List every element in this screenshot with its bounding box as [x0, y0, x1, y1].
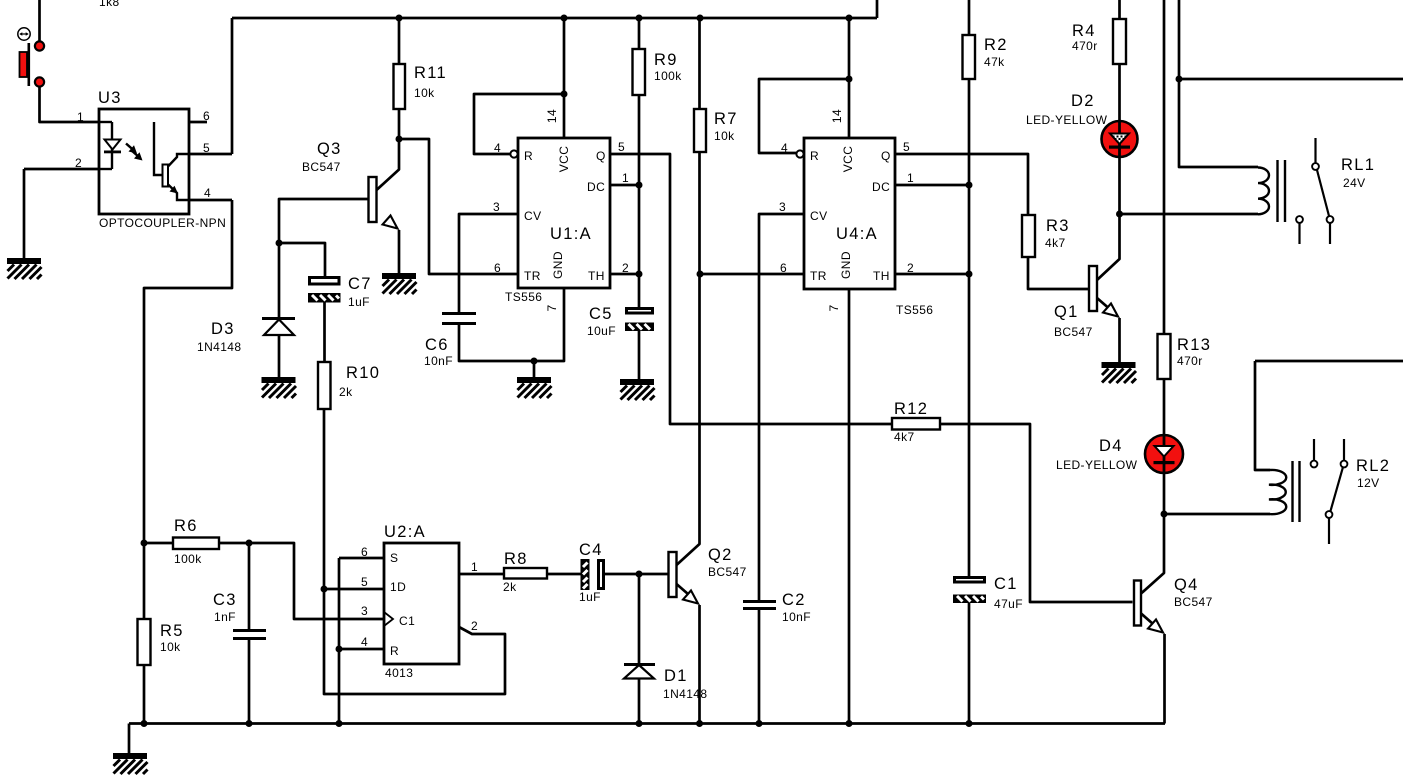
svg-text:470r: 470r	[1072, 39, 1098, 53]
svg-text:VCC: VCC	[557, 146, 571, 173]
svg-text:U3: U3	[98, 89, 122, 107]
svg-text:4: 4	[204, 186, 211, 200]
svg-text:C2: C2	[782, 591, 806, 609]
svg-text:10nF: 10nF	[424, 354, 453, 368]
svg-text:R4: R4	[1072, 22, 1096, 40]
svg-text:OPTOCOUPLER-NPN: OPTOCOUPLER-NPN	[99, 216, 226, 230]
svg-text:7: 7	[827, 304, 841, 311]
svg-text:10k: 10k	[160, 640, 181, 654]
svg-text:3: 3	[779, 200, 786, 214]
svg-text:5: 5	[903, 140, 910, 154]
svg-text:CV: CV	[810, 209, 827, 223]
svg-text:LED-YELLOW: LED-YELLOW	[1026, 113, 1108, 127]
svg-text:U4:A: U4:A	[836, 225, 878, 243]
svg-text:C7: C7	[348, 275, 372, 293]
svg-text:12V: 12V	[1357, 476, 1380, 490]
svg-text:R: R	[390, 644, 399, 658]
svg-text:D2: D2	[1071, 92, 1095, 110]
svg-text:10uF: 10uF	[587, 324, 616, 338]
svg-text:Q3: Q3	[317, 140, 342, 158]
svg-text:6: 6	[361, 545, 368, 559]
svg-text:3: 3	[361, 604, 368, 618]
svg-text:4: 4	[781, 141, 788, 155]
svg-text:R2: R2	[984, 36, 1008, 54]
svg-text:VCC: VCC	[841, 146, 855, 173]
svg-text:BC547: BC547	[1054, 325, 1093, 339]
svg-text:BC547: BC547	[1174, 595, 1213, 609]
svg-text:R6: R6	[174, 517, 198, 535]
svg-text:5: 5	[203, 141, 210, 155]
svg-text:R: R	[810, 149, 819, 163]
svg-text:14: 14	[545, 109, 559, 123]
svg-text:RL2: RL2	[1356, 457, 1390, 475]
svg-text:Q1: Q1	[1054, 303, 1079, 321]
svg-text:6: 6	[780, 261, 787, 275]
svg-text:2k: 2k	[503, 580, 517, 594]
svg-text:10k: 10k	[714, 129, 735, 143]
svg-text:C6: C6	[425, 336, 449, 354]
svg-text:TH: TH	[873, 269, 890, 283]
svg-text:GND: GND	[551, 251, 565, 279]
svg-text:14: 14	[830, 109, 844, 123]
svg-text:LED-YELLOW: LED-YELLOW	[1056, 458, 1138, 472]
svg-text:1N4148: 1N4148	[663, 687, 707, 701]
svg-text:D4: D4	[1099, 437, 1123, 455]
svg-text:1uF: 1uF	[579, 590, 601, 604]
svg-text:RL1: RL1	[1341, 156, 1375, 174]
svg-text:R13: R13	[1177, 336, 1211, 354]
svg-text:5: 5	[618, 140, 625, 154]
svg-text:1: 1	[622, 171, 629, 185]
svg-text:Q: Q	[881, 149, 891, 163]
svg-text:1: 1	[907, 171, 914, 185]
svg-text:R7: R7	[714, 110, 738, 128]
svg-text:3: 3	[493, 200, 500, 214]
svg-text:R3: R3	[1046, 217, 1070, 235]
svg-text:R11: R11	[414, 64, 447, 82]
svg-text:47uF: 47uF	[994, 597, 1023, 611]
svg-text:R8: R8	[504, 550, 528, 568]
svg-text:DC: DC	[872, 180, 890, 194]
svg-text:7: 7	[545, 304, 559, 311]
svg-text:Q4: Q4	[1174, 576, 1199, 594]
svg-text:1N4148: 1N4148	[197, 340, 241, 354]
svg-text:2k: 2k	[339, 385, 353, 399]
svg-text:R10: R10	[346, 364, 380, 382]
svg-text:D3: D3	[211, 320, 235, 338]
svg-text:BC547: BC547	[302, 160, 341, 174]
svg-text:Q: Q	[596, 149, 606, 163]
svg-text:C3: C3	[213, 591, 237, 609]
svg-text:4: 4	[494, 141, 501, 155]
svg-text:10k: 10k	[414, 86, 435, 100]
svg-text:100k: 100k	[654, 69, 682, 83]
svg-text:5: 5	[361, 575, 368, 589]
svg-text:4: 4	[361, 635, 368, 649]
svg-text:U1:A: U1:A	[550, 225, 592, 243]
svg-text:2: 2	[622, 261, 629, 275]
svg-text:470r: 470r	[1177, 354, 1203, 368]
svg-text:D1: D1	[664, 667, 688, 685]
svg-text:2: 2	[75, 156, 82, 170]
svg-text:R12: R12	[894, 400, 928, 418]
svg-text:Q2: Q2	[708, 546, 733, 564]
svg-text:TS556: TS556	[896, 303, 933, 317]
svg-text:TR: TR	[810, 269, 827, 283]
svg-text:C1: C1	[994, 575, 1018, 593]
svg-text:4k7: 4k7	[894, 430, 915, 444]
svg-text:GND: GND	[839, 251, 853, 279]
svg-text:4k7: 4k7	[1045, 236, 1066, 250]
svg-text:4013: 4013	[385, 666, 413, 680]
svg-text:TS556: TS556	[505, 290, 542, 304]
svg-text:1uF: 1uF	[348, 295, 370, 309]
svg-text:U2:A: U2:A	[384, 523, 426, 541]
svg-text:6: 6	[203, 109, 210, 123]
svg-text:1D: 1D	[390, 580, 406, 594]
svg-text:1: 1	[471, 560, 478, 574]
svg-text:24V: 24V	[1343, 176, 1366, 190]
svg-text:2: 2	[907, 261, 914, 275]
svg-text:1: 1	[77, 110, 84, 124]
svg-text:DC: DC	[587, 180, 605, 194]
svg-text:TR: TR	[524, 269, 541, 283]
svg-text:47k: 47k	[984, 55, 1005, 69]
svg-text:1nF: 1nF	[214, 610, 236, 624]
svg-text:100k: 100k	[174, 552, 202, 566]
svg-text:R5: R5	[160, 622, 184, 640]
svg-text:10nF: 10nF	[782, 610, 811, 624]
svg-text:CV: CV	[524, 209, 541, 223]
svg-text:S: S	[390, 551, 398, 565]
svg-text:C5: C5	[589, 305, 613, 323]
svg-text:TH: TH	[588, 269, 605, 283]
svg-text:C4: C4	[579, 541, 603, 559]
svg-text:R: R	[524, 149, 533, 163]
svg-text:C1: C1	[399, 614, 415, 628]
svg-text:1k8: 1k8	[99, 0, 120, 9]
svg-text:2: 2	[471, 619, 478, 633]
svg-text:BC547: BC547	[708, 565, 747, 579]
svg-text:R9: R9	[654, 51, 678, 69]
svg-text:6: 6	[494, 261, 501, 275]
